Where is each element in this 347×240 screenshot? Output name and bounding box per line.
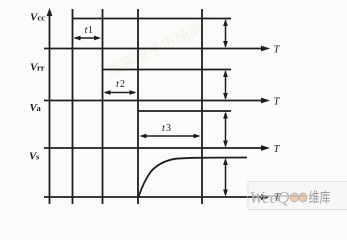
svg-text:1: 1 — [88, 25, 93, 36]
svg-text:rr: rr — [37, 63, 45, 73]
svg-text:2: 2 — [120, 79, 125, 90]
svg-text:WeeQ: WeeQ — [250, 188, 290, 207]
svg-text:维库: 维库 — [309, 190, 331, 206]
svg-text:3: 3 — [166, 123, 171, 134]
svg-text:cc: cc — [38, 13, 46, 23]
